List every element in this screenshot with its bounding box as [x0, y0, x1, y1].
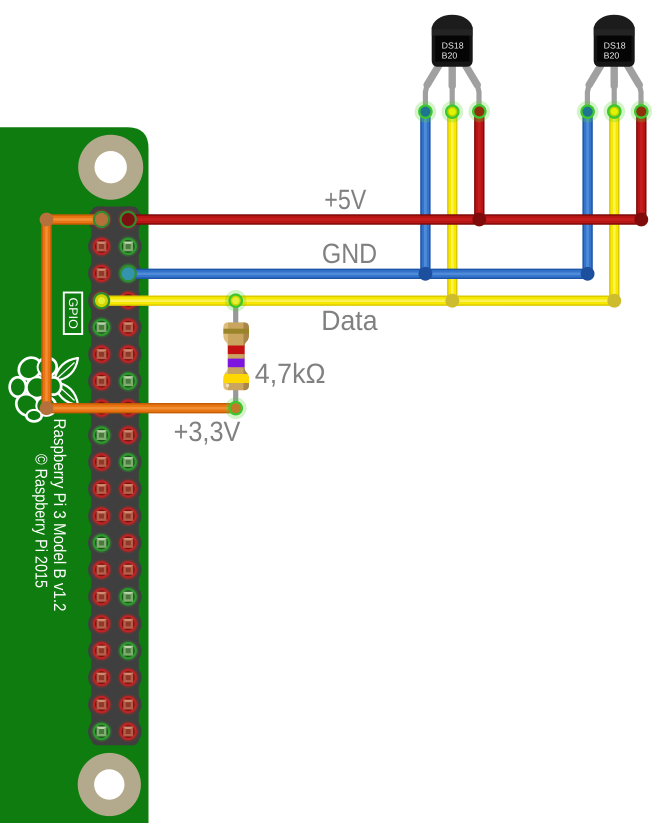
wire: Data bus (yellow horizontal): [102, 296, 615, 306]
wire: sensor U1 data (yellow vertical): [447, 112, 457, 301]
svg-text:DS18: DS18: [442, 41, 464, 51]
GPIO silkscreen label: [64, 293, 82, 335]
wire: sensor U1 ground (blue vertical): [420, 112, 430, 274]
svg-text:© Raspberry Pi 2015: © Raspberry Pi 2015: [32, 454, 51, 588]
temperature sensor DS18B20 U2: [587, 15, 641, 110]
junction dots: [472, 213, 486, 227]
wire: sensor U2 +5V (red vertical): [636, 112, 646, 220]
raspberry pi logo: [10, 354, 78, 421]
wire: sensor U1 +5V (red vertical): [474, 112, 484, 220]
wire: sensor U2 ground (blue vertical): [582, 112, 592, 274]
band yellow: [222, 374, 250, 383]
band red: [222, 346, 250, 355]
mounting hole top: [78, 135, 143, 200]
svg-text:Data: Data: [321, 305, 378, 336]
resistor R1 4.7k leads: [233, 302, 238, 406]
GPIO header pins: [92, 210, 137, 741]
wire: GND bus (blue horizontal): [128, 269, 587, 279]
svg-text:4,7kΩ: 4,7kΩ: [255, 358, 326, 389]
Raspberry Pi 3 board: [0, 127, 149, 823]
svg-text:B20: B20: [604, 50, 620, 60]
wire: +3.3V (orange): [47, 214, 102, 224]
svg-text:+3,3V: +3,3V: [174, 416, 241, 447]
svg-text:B20: B20: [442, 50, 458, 60]
svg-text:DS18: DS18: [604, 41, 626, 51]
wire endpoints: [416, 103, 434, 121]
svg-text:GND: GND: [322, 238, 377, 269]
wire: +5V bus (red horizontal): [128, 214, 641, 224]
svg-text:Raspberry Pi 3 Model B v1.2: Raspberry Pi 3 Model B v1.2: [50, 419, 69, 612]
GPIO header: [88, 206, 141, 745]
svg-text:GPIO: GPIO: [66, 298, 80, 330]
temperature sensor DS18B20 U1: [425, 15, 479, 110]
mounting hole bottom: [78, 753, 141, 816]
band violet: [222, 359, 250, 368]
svg-text:+5V: +5V: [324, 184, 366, 215]
band gold: [222, 329, 250, 334]
wire: sensor U2 data (yellow vertical): [609, 112, 619, 301]
